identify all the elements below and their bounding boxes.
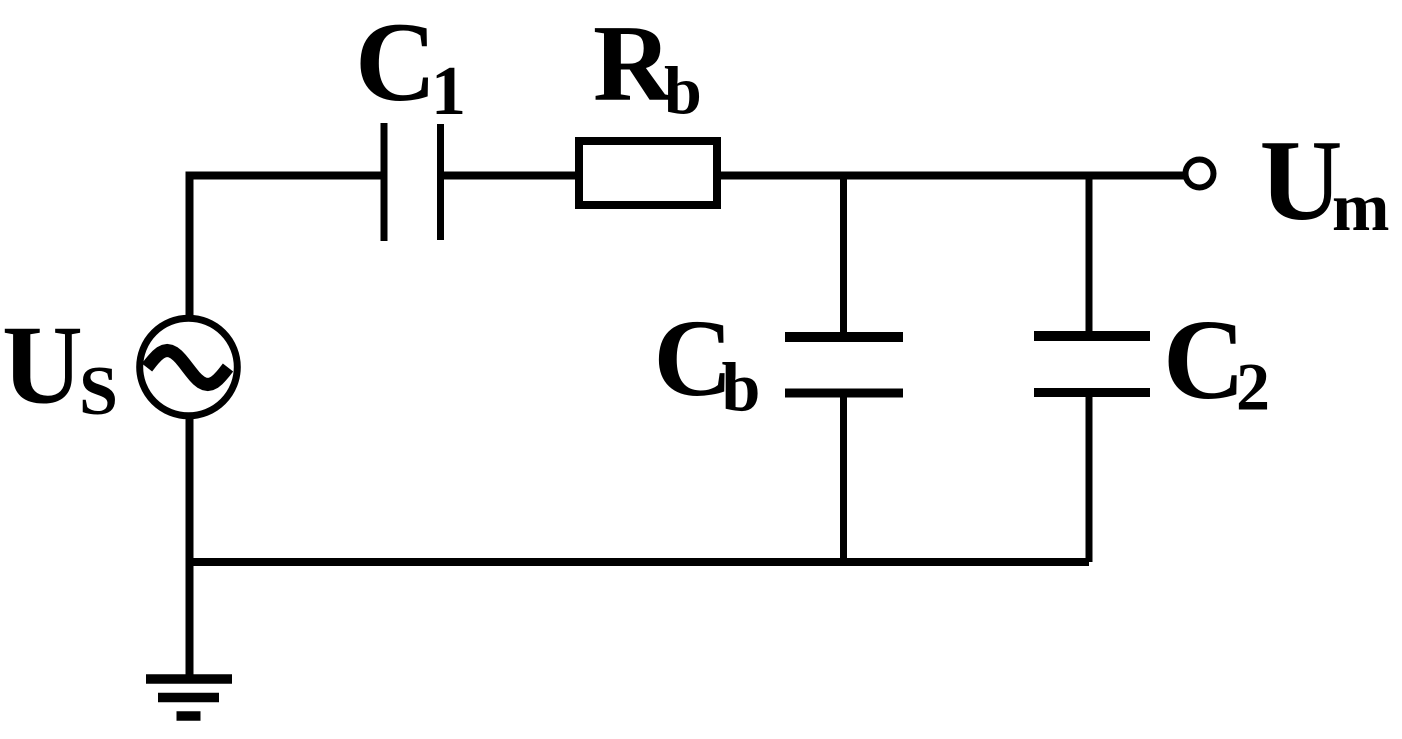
label Cb	[654, 297, 761, 427]
capacitor C2	[1034, 336, 1150, 393]
wire: bottom stem of Cb to bottom rail	[840, 393, 847, 562]
label C1	[355, 0, 466, 130]
svg-text:R: R	[593, 3, 673, 124]
wire: source bottom down to ground	[186, 417, 194, 676]
label C2	[1163, 296, 1270, 425]
label US	[2, 304, 118, 431]
svg-text:C: C	[1163, 296, 1245, 423]
wire: bottom stem of C2 to bottom rail	[1086, 393, 1093, 563]
wire: top stem of Cb from node	[840, 176, 847, 338]
wire: Rb to output terminal Um	[721, 172, 1186, 180]
svg-text:U: U	[2, 304, 83, 428]
svg-text:m: m	[1332, 169, 1389, 245]
wire: source top to C1 left plate (corner at top-left)	[190, 176, 382, 317]
svg-text:C: C	[355, 0, 437, 125]
wire: bottom rail	[190, 558, 1090, 566]
svg-text:2: 2	[1236, 349, 1270, 425]
source US (AC source circle)	[140, 318, 238, 416]
terminal Um (open circle)	[1186, 160, 1214, 188]
capacitor Cb	[785, 337, 903, 393]
label Rb	[593, 3, 702, 128]
svg-text:1: 1	[431, 53, 466, 130]
wire: top stem of C2 from node	[1086, 176, 1093, 337]
svg-text:b: b	[664, 52, 702, 128]
capacitor C1	[384, 123, 441, 241]
svg-text:b: b	[722, 350, 761, 427]
svg-text:U: U	[1260, 117, 1343, 244]
ground	[146, 679, 232, 716]
resistor Rb	[579, 141, 717, 205]
svg-text:S: S	[79, 353, 118, 430]
wire: C1 right plate to Rb	[444, 172, 577, 180]
sine symbol inside source	[147, 351, 228, 385]
label Um	[1260, 117, 1390, 245]
